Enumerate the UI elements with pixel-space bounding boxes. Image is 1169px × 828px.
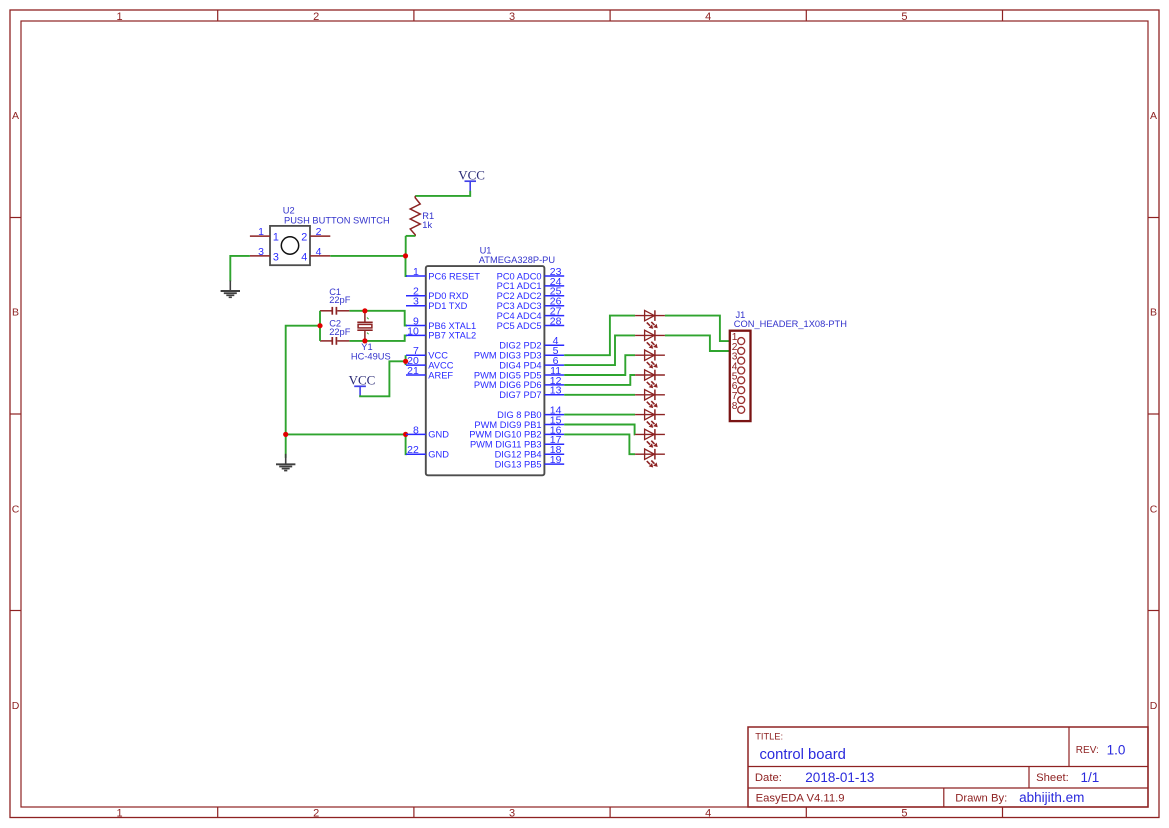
svg-text:PB6 XTAL1: PB6 XTAL1: [428, 321, 476, 331]
U1 pin 28 (PC5 ADC5): [497, 315, 565, 330]
wire LED2 to J1 pin2: [665, 335, 738, 351]
svg-text:2: 2: [313, 11, 319, 23]
svg-text:Drawn By:: Drawn By:: [955, 792, 1007, 804]
wire node A to U1 pin1: [406, 256, 408, 276]
svg-text:2: 2: [301, 232, 307, 244]
junction C rail: [317, 323, 322, 328]
svg-text:DIG4 PD4: DIG4 PD4: [499, 360, 541, 370]
U1 pin 18 (DIG12 PB4): [495, 444, 565, 459]
U1 pin 1 (PC6 RESET): [406, 266, 480, 281]
svg-text:PC0 ADC0: PC0 ADC0: [497, 271, 542, 281]
junction Y1 bottom: [362, 338, 367, 343]
svg-text:3: 3: [413, 296, 419, 308]
U2 pin 3: [250, 246, 279, 264]
svg-text:PB7 XTAL2: PB7 XTAL2: [428, 331, 476, 341]
junction ground rail: [283, 432, 288, 437]
switch U2 body: [270, 226, 310, 265]
LED2: [635, 330, 665, 349]
U1 pin 19 (DIG13 PB5): [495, 454, 565, 469]
svg-text:PWM DIG10 PB2: PWM DIG10 PB2: [469, 430, 541, 440]
svg-text:A: A: [1150, 110, 1157, 122]
svg-text:C: C: [12, 503, 20, 515]
svg-text:2018-01-13: 2018-01-13: [805, 770, 874, 785]
wire U1 pin12 to LED4: [564, 375, 635, 385]
junction AVCC: [403, 359, 408, 364]
svg-text:PC1 ADC1: PC1 ADC1: [497, 281, 542, 291]
U2 pin 1: [250, 226, 279, 244]
ground (left rail): [276, 454, 295, 471]
svg-text:4: 4: [301, 251, 307, 263]
svg-text:D: D: [12, 700, 20, 712]
J1 pin 7: [732, 391, 745, 404]
svg-text:22: 22: [407, 444, 419, 456]
svg-text:22pF: 22pF: [329, 295, 351, 305]
svg-text:1/1: 1/1: [1081, 770, 1100, 785]
svg-text:5: 5: [901, 11, 907, 23]
J1 pin 4: [732, 362, 745, 375]
J1 pin 8: [732, 401, 745, 414]
wire U1 pin14 to LED6: [564, 414, 635, 416]
wire U1 pin13 to LED5: [564, 394, 635, 396]
svg-text:PWM DIG5 PD5: PWM DIG5 PD5: [474, 370, 542, 380]
svg-text:PWM DIG11 PB3: PWM DIG11 PB3: [470, 440, 542, 450]
svg-text:4: 4: [316, 246, 322, 258]
U1 pin 27 (PC4 ADC4): [497, 306, 565, 321]
U1 pin 14 (DIG 8 PB0): [497, 405, 564, 420]
power symbol VCC (AVCC): [349, 372, 376, 395]
U1 pin 8 (GND): [406, 424, 449, 439]
svg-text:PD0 RXD: PD0 RXD: [428, 291, 469, 301]
svg-text:DIG12 PB4: DIG12 PB4: [495, 450, 542, 460]
wire U2 pin3 to ground: [230, 256, 250, 281]
svg-text:B: B: [12, 307, 19, 319]
svg-text:A: A: [12, 110, 19, 122]
junction node A: [403, 253, 408, 258]
junction Y1 top: [362, 308, 367, 313]
U1 pin 2 (PD0 RXD): [406, 286, 469, 301]
svg-text:2: 2: [316, 226, 322, 238]
svg-text:B: B: [1150, 307, 1157, 319]
svg-text:PC6 RESET: PC6 RESET: [428, 271, 480, 281]
svg-text:GND: GND: [428, 450, 449, 460]
svg-text:1: 1: [117, 11, 123, 23]
U1 pin 20 (AVCC): [406, 355, 454, 370]
svg-text:abhijith.em: abhijith.em: [1019, 790, 1084, 805]
LED8: [635, 449, 665, 468]
wire U1 pin16 to LED8: [564, 434, 635, 454]
svg-text:ATMEGA328P-PU: ATMEGA328P-PU: [479, 255, 555, 265]
svg-text:U2: U2: [283, 206, 295, 216]
wire C2/Y1 to U1 pin10: [349, 335, 407, 341]
svg-text:1: 1: [258, 226, 264, 238]
connector J1 body: [730, 331, 751, 421]
svg-text:CON_HEADER_1X08-PTH: CON_HEADER_1X08-PTH: [734, 319, 847, 329]
title block: [748, 727, 1148, 807]
svg-text:1: 1: [273, 232, 279, 244]
svg-text:2: 2: [313, 807, 319, 819]
U1 pin 10 (PB7 XTAL2): [406, 325, 476, 340]
svg-text:REV:: REV:: [1076, 745, 1099, 756]
svg-text:PUSH BUTTON SWITCH: PUSH BUTTON SWITCH: [284, 215, 390, 225]
U1 pin 16 (PWM DIG10 PB2): [469, 424, 564, 439]
svg-text:3: 3: [509, 807, 515, 819]
wire U1 pin6 to LED2: [564, 335, 635, 365]
svg-text:AVCC: AVCC: [428, 360, 453, 370]
wire U1 pin8 to pin22: [406, 434, 407, 454]
U1 pin 25 (PC2 ADC2): [497, 286, 565, 301]
svg-text:1: 1: [413, 266, 419, 278]
svg-text:1k: 1k: [422, 220, 432, 230]
U1 pin 13 (DIG7 PD7): [499, 385, 564, 400]
svg-text:3: 3: [273, 251, 279, 263]
svg-text:PWM DIG6 PD6: PWM DIG6 PD6: [474, 380, 542, 390]
U1 pin 3 (PD1 TXD): [406, 296, 468, 311]
svg-text:EasyEDA V4.11.9: EasyEDA V4.11.9: [756, 792, 845, 804]
wire R1 to node A: [406, 235, 416, 237]
svg-text:DIG 8 PB0: DIG 8 PB0: [497, 410, 541, 420]
wire VCC to R1: [415, 191, 470, 196]
LED3: [635, 350, 665, 369]
U1 pin 22 (GND): [406, 444, 449, 459]
svg-text:AREF: AREF: [428, 370, 453, 380]
wire U1 pin11 to LED3: [564, 355, 635, 375]
U1 pin 6 (DIG4 PD4): [499, 355, 564, 370]
op-amp U1 body: [426, 266, 545, 475]
U1 pin 15 (PWM DIG9 PB1): [474, 414, 564, 429]
U1 pin 4 (DIG2 PD2): [499, 335, 564, 350]
svg-text:TITLE:: TITLE:: [755, 731, 783, 741]
svg-text:PC3 ADC3: PC3 ADC3: [497, 301, 542, 311]
wire ground rail to U1 pin8: [286, 433, 407, 435]
U1 pin 17 (PWM DIG11 PB3): [470, 434, 564, 449]
junction pin8: [403, 432, 408, 437]
svg-text:4: 4: [705, 807, 711, 819]
svg-text:8: 8: [732, 401, 738, 412]
svg-text:D: D: [1150, 700, 1158, 712]
J1 pin 2: [732, 342, 745, 355]
J1 pin 6: [732, 381, 745, 394]
U1 pin 24 (PC1 ADC1): [497, 276, 565, 291]
U1 pin 7 (VCC): [406, 345, 448, 360]
svg-text:DIG13 PB5: DIG13 PB5: [495, 459, 542, 469]
svg-text:DIG7 PD7: DIG7 PD7: [499, 390, 541, 400]
J1 pin 3: [732, 352, 745, 365]
svg-text:GND: GND: [428, 430, 449, 440]
wire node A to U2 pin4: [330, 255, 405, 257]
svg-text:C: C: [1150, 503, 1158, 515]
LED4: [635, 370, 665, 389]
svg-text:Sheet:: Sheet:: [1036, 772, 1069, 784]
U2 pin 2: [301, 226, 330, 244]
svg-text:PC5 ADC5: PC5 ADC5: [497, 321, 542, 331]
U2 pin 4: [301, 246, 330, 264]
svg-text:28: 28: [550, 315, 562, 327]
wire U1 pin15 to LED7: [564, 425, 635, 435]
wire C1-C2 left rail: [319, 311, 321, 341]
U1 pin 26 (PC3 ADC3): [497, 296, 565, 311]
svg-text:4: 4: [705, 11, 711, 23]
svg-text:1.0: 1.0: [1107, 742, 1126, 757]
U1 pin 23 (PC0 ADC0): [497, 266, 565, 281]
svg-text:3: 3: [509, 11, 515, 23]
LED7: [635, 429, 665, 448]
LED1: [635, 310, 665, 329]
wire U1 pin5 to LED1: [564, 316, 635, 356]
svg-text:PD1 TXD: PD1 TXD: [428, 301, 467, 311]
wire VCC to U1 AVCC: [360, 361, 406, 396]
svg-text:21: 21: [407, 365, 419, 377]
svg-text:10: 10: [407, 325, 419, 337]
resistor R1: [410, 196, 420, 236]
wire rail to ground rail: [286, 326, 320, 458]
J1 pin 5: [732, 371, 745, 384]
svg-text:3: 3: [258, 246, 264, 258]
svg-text:PWM DIG9 PB1: PWM DIG9 PB1: [474, 420, 541, 430]
wire C1/Y1 to U1 pin9: [349, 311, 407, 326]
LED5: [635, 390, 665, 409]
svg-text:Date:: Date:: [755, 772, 782, 784]
power symbol VCC (top): [458, 167, 485, 191]
svg-text:19: 19: [550, 454, 562, 466]
svg-text:PC2 ADC2: PC2 ADC2: [497, 291, 542, 301]
svg-text:1: 1: [117, 807, 123, 819]
wire VCC rail pin7-pin20: [405, 355, 407, 365]
ground (below U2): [221, 281, 240, 298]
U1 pin 9 (PB6 XTAL1): [406, 315, 476, 330]
svg-text:HC-49US: HC-49US: [351, 352, 391, 362]
LED6: [635, 409, 665, 428]
J1 pin 1: [732, 332, 745, 345]
U1 pin 5 (PWM DIG3 PD3): [474, 345, 564, 360]
svg-text:5: 5: [901, 807, 907, 819]
U1 pin 11 (PWM DIG5 PD5): [474, 365, 564, 380]
U1 pin 12 (PWM DIG6 PD6): [474, 375, 564, 390]
svg-text:VCC: VCC: [349, 372, 376, 387]
capacitor C2: [320, 337, 349, 345]
wire LED1 to J1 pin1: [665, 316, 738, 342]
svg-text:DIG2 PD2: DIG2 PD2: [499, 341, 541, 351]
capacitor C1: [320, 307, 349, 315]
svg-text:22pF: 22pF: [329, 327, 351, 337]
svg-text:control board: control board: [760, 747, 846, 763]
U1 pin 21 (AREF): [406, 365, 453, 380]
svg-text:PC4 ADC4: PC4 ADC4: [497, 311, 542, 321]
svg-text:8: 8: [413, 424, 419, 436]
svg-text:13: 13: [550, 385, 562, 397]
svg-text:PWM DIG3 PD3: PWM DIG3 PD3: [474, 351, 542, 361]
svg-text:VCC: VCC: [428, 351, 448, 361]
crystal Y1: [357, 311, 372, 341]
svg-text:VCC: VCC: [458, 167, 485, 182]
